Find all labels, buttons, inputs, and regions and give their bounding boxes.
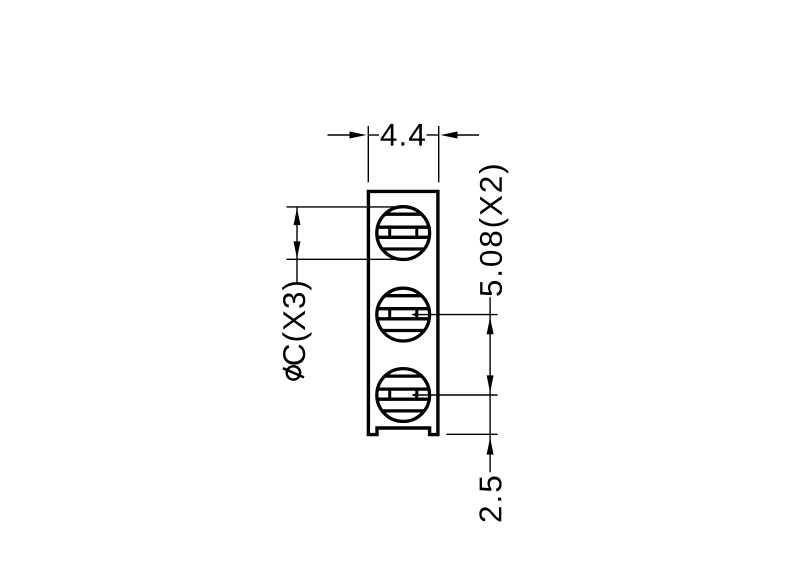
right dim 5.08: down arrow (487, 375, 494, 392)
right dim: circle3 center extension line (413, 394, 498, 396)
top dim 4.4: left tail line (328, 134, 353, 136)
right dim: circle2 center extension line (413, 314, 498, 316)
right dim: circle2 center small arrow (411, 313, 417, 317)
phiC dim: bottom extension line (287, 258, 404, 260)
top dim 4.4: left extension line (367, 126, 369, 182)
right dim 2.5: bottom up arrow (487, 438, 494, 455)
screw 3 circle (377, 369, 430, 422)
top dim 4.4: inner left segment (368, 134, 379, 136)
top dim 4.4: right arrow (441, 132, 458, 139)
phiC dim: label C(X3) rotated (282, 282, 311, 365)
phiC dim: diameter symbol slash (283, 368, 304, 377)
screw 2 slot pattern (375, 296, 431, 331)
top dim 4.4: inner right segment (427, 134, 439, 136)
screw 2 circle (377, 288, 430, 341)
phiC dim: diameter symbol circle (287, 366, 300, 379)
right dim: bottom extension line (447, 433, 498, 435)
top dim 4.4: left arrow (350, 132, 367, 139)
phiC dim: down arrow (294, 241, 301, 258)
right dim: vertical dim line (489, 297, 491, 472)
body outline with bottom feet (368, 191, 438, 434)
screw 1 circle (377, 207, 430, 260)
top dim 4.4: right tail line (455, 134, 479, 136)
top dim 4.4: right extension line (438, 126, 440, 182)
right dim: label 5.08(X2) rotated (479, 165, 508, 295)
screw 1 slot pattern (375, 214, 431, 249)
screw 3 slot pattern (375, 376, 431, 411)
right dim: label 2.5 rotated (479, 477, 501, 522)
right dim 5.08: up arrow (487, 317, 494, 334)
phiC dim: up arrow (294, 208, 301, 225)
phiC dim: vertical dim line (296, 207, 298, 282)
phiC dim: top extension line (287, 206, 404, 208)
top dim 4.4: value text (381, 124, 425, 146)
right dim: circle3 center small arrow (411, 393, 417, 397)
